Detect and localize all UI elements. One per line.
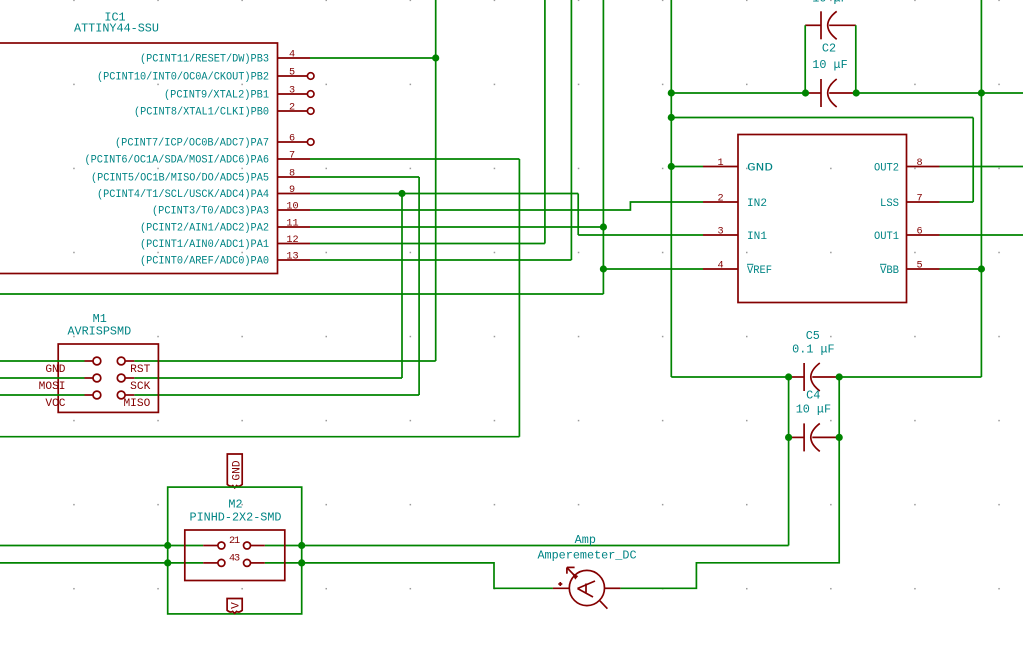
wire PA1 net riser <box>310 0 545 244</box>
svg-text:(PCINT10/INT0/OC0A/CKOUT)PB2: (PCINT10/INT0/OC0A/CKOUT)PB2 <box>97 72 269 84</box>
capacitor C1 (clipped at top) <box>805 0 856 39</box>
pin 2 PB0 <box>134 103 314 119</box>
svg-text:10 μF: 10 μF <box>796 403 831 417</box>
M1 pin SCK <box>117 374 150 393</box>
svg-text:C5: C5 <box>806 329 820 343</box>
junction C5 right <box>836 373 843 380</box>
IC U1 box <box>0 11 278 274</box>
wire VREF net <box>0 0 703 294</box>
svg-text:1: 1 <box>717 158 723 169</box>
pin 12 PA1 <box>140 235 310 251</box>
svg-text:MISO: MISO <box>123 398 150 410</box>
M1 pin MOSI <box>39 374 101 393</box>
header M1 AVRISPSMD <box>58 312 158 412</box>
wire RESET net (pin4 riser) <box>134 0 435 361</box>
svg-text:8: 8 <box>289 169 295 180</box>
junction VREF-PA2 <box>600 223 607 230</box>
svg-text:M2: M2 <box>228 498 242 512</box>
svg-text:IN2: IN2 <box>747 198 767 210</box>
pin 3 PB1 <box>164 86 314 102</box>
svg-text:2: 2 <box>289 103 295 114</box>
wire PA0 net riser <box>310 0 571 260</box>
junction SCK <box>398 190 405 197</box>
wire M1 MOSI left <box>0 377 85 379</box>
svg-text:OUT1: OUT1 <box>874 231 899 243</box>
wire OUT1 <box>940 234 1023 236</box>
M1 pin MISO <box>117 391 150 410</box>
meter Amp Amperemeter_DC <box>537 533 636 609</box>
junction M2 left row1 <box>164 542 171 549</box>
wire M1 GND left <box>0 360 85 362</box>
svg-text:0.1 μF: 0.1 μF <box>792 343 834 357</box>
svg-text:C4: C4 <box>806 389 820 403</box>
pin 8 PA5 <box>91 169 310 185</box>
svg-text:IN1: IN1 <box>747 231 767 243</box>
svg-text:11: 11 <box>286 219 298 230</box>
junction VBB top <box>978 89 985 96</box>
svg-text:(PCINT8/XTAL1/CLKI)PB0: (PCINT8/XTAL1/CLKI)PB0 <box>134 107 269 119</box>
capacitor C5 <box>789 329 840 391</box>
svg-text:8: 8 <box>916 158 922 169</box>
svg-text:5: 5 <box>289 68 295 79</box>
wire MOSI net (pin7) <box>0 159 519 437</box>
pin 8 OUT2 <box>874 158 940 175</box>
junction GND-LSS <box>668 114 675 121</box>
wire GND bottom net <box>0 437 789 545</box>
M1 pin RST <box>117 357 150 376</box>
M2 pin 4 <box>203 553 235 566</box>
svg-text:(PCINT11/RESET/DW)PB3: (PCINT11/RESET/DW)PB3 <box>140 54 269 66</box>
wire V net bottom <box>0 437 839 588</box>
svg-text:GND: GND <box>45 364 65 376</box>
junction VREF pin <box>600 265 607 272</box>
wire VBB net top <box>839 0 1023 377</box>
svg-text:LSS: LSS <box>880 198 899 210</box>
svg-text:3: 3 <box>234 553 240 564</box>
svg-text:9: 9 <box>289 185 295 196</box>
svg-text:PINHD-2X2-SMD: PINHD-2X2-SMD <box>189 511 281 525</box>
svg-text:(PCINT9/XTAL2)PB1: (PCINT9/XTAL2)PB1 <box>164 90 269 102</box>
svg-text:OUT2: OUT2 <box>874 163 899 175</box>
M1 pin GND <box>45 357 100 376</box>
svg-text:(PCINT1/AIN0/ADC1)PA1: (PCINT1/AIN0/ADC1)PA1 <box>140 239 269 251</box>
svg-text:6: 6 <box>289 134 295 145</box>
svg-text:3: 3 <box>289 86 295 97</box>
svg-text:10: 10 <box>286 202 298 213</box>
M2 pin 3 <box>234 553 265 566</box>
svg-text:4: 4 <box>717 261 723 272</box>
IC U2 A4953 box <box>738 135 907 303</box>
wire M1 VCC left <box>0 394 85 396</box>
wire C5-C4 right <box>838 377 840 437</box>
pin 11 PA2 <box>140 219 310 235</box>
capacitor C2 <box>806 42 857 108</box>
pin 5 PB2 <box>97 68 314 84</box>
svg-text:10 μF: 10 μF <box>812 0 847 6</box>
junction C2 left <box>802 89 809 96</box>
pin 4 VREF <box>703 261 772 278</box>
svg-text:Amperemeter_DC: Amperemeter_DC <box>537 549 636 563</box>
junction GND-C2 <box>668 89 675 96</box>
capacitor C4 <box>789 389 840 452</box>
svg-text:4: 4 <box>289 50 295 61</box>
wire IN2 net (pin10) <box>310 202 703 210</box>
svg-text:ATTINY44-SSU: ATTINY44-SSU <box>74 22 159 36</box>
svg-text:(PCINT5/OC1B/MISO/DO/ADC5)PA5: (PCINT5/OC1B/MISO/DO/ADC5)PA5 <box>91 173 269 185</box>
svg-text:GND: GND <box>231 460 243 480</box>
svg-text:C2: C2 <box>822 42 836 56</box>
svg-text:10 μF: 10 μF <box>812 58 847 72</box>
svg-text:6: 6 <box>916 227 922 238</box>
svg-text:SCK: SCK <box>130 381 150 393</box>
pin 13 PA0 <box>140 252 310 268</box>
svg-text:(PCINT3/T0/ADC3)PA3: (PCINT3/T0/ADC3)PA3 <box>152 206 269 218</box>
svg-text:12: 12 <box>286 235 298 246</box>
svg-text:(PCINT6/OC1A/SDA/MOSI/ADC6)PA6: (PCINT6/OC1A/SDA/MOSI/ADC6)PA6 <box>85 155 270 167</box>
junction M2 right row1 <box>298 542 305 549</box>
pin 7 PA6 <box>85 151 311 167</box>
pin 10 PA3 <box>152 202 310 218</box>
svg-text:VBB: VBB <box>880 265 899 277</box>
svg-text:7: 7 <box>916 194 922 205</box>
pin 5 VBB <box>880 261 940 278</box>
svg-text:1: 1 <box>234 536 240 547</box>
junction C5 left <box>785 373 792 380</box>
junction C4 left <box>785 434 792 441</box>
svg-text:V: V <box>230 602 242 609</box>
svg-text:AVRISPSMD: AVRISPSMD <box>67 325 131 339</box>
pin 9 PA4 <box>97 185 310 201</box>
power flag GND <box>227 454 243 488</box>
M1 pin VCC <box>45 391 100 410</box>
svg-text:VREF: VREF <box>747 265 772 277</box>
junction VBB pin5 <box>978 265 985 272</box>
svg-text:13: 13 <box>286 252 298 263</box>
junction M2 right row2 <box>298 559 305 566</box>
wire C5-C4 left <box>788 377 790 437</box>
svg-text:7: 7 <box>289 151 295 162</box>
svg-text:(PCINT7/ICP/OC0B/ADC7)PA7: (PCINT7/ICP/OC0B/ADC7)PA7 <box>115 138 269 150</box>
svg-text:(PCINT0/AREF/ADC0)PA0: (PCINT0/AREF/ADC0)PA0 <box>140 256 269 268</box>
svg-text:Amp: Amp <box>575 533 596 547</box>
svg-text:(PCINT2/AIN1/ADC2)PA2: (PCINT2/AIN1/ADC2)PA2 <box>140 223 269 235</box>
pin 2 IN2 <box>703 194 767 211</box>
junction C2 right <box>853 89 860 96</box>
wire OUT2 <box>940 166 1023 168</box>
pin 7 LSS <box>880 194 940 211</box>
pin 3 IN1 <box>703 227 767 244</box>
svg-text:2: 2 <box>717 194 723 205</box>
svg-text:(PCINT4/T1/SCL/USCK/ADC4)PA4: (PCINT4/T1/SCL/USCK/ADC4)PA4 <box>97 189 269 201</box>
supply flag V <box>227 599 242 614</box>
svg-text:GND: GND <box>747 163 773 175</box>
junction pin4 <box>432 54 439 61</box>
wire SCK net <box>134 194 703 379</box>
pin 6 OUT1 <box>874 227 940 244</box>
junction M2 left row2 <box>164 559 171 566</box>
pin 1 GND <box>703 158 773 175</box>
pin 6 PA7 <box>115 134 314 150</box>
svg-text:3: 3 <box>717 227 723 238</box>
junction GND pin1 <box>668 163 675 170</box>
svg-text:RST: RST <box>130 364 150 376</box>
pin 4 PB3 <box>140 50 310 66</box>
wire M2 frame <box>168 487 302 614</box>
wire GND top net <box>671 0 973 377</box>
header M2 PINHD-2X2-SMD <box>185 498 285 581</box>
junction C4 right <box>836 434 843 441</box>
wire MISO net <box>134 177 419 395</box>
M2 pin 2 <box>203 536 235 549</box>
svg-text:5: 5 <box>916 261 922 272</box>
svg-text:VCC: VCC <box>45 398 65 410</box>
svg-text:MOSI: MOSI <box>39 381 66 393</box>
wire C1 legs <box>805 25 856 93</box>
M2 pin 1 <box>234 536 265 549</box>
